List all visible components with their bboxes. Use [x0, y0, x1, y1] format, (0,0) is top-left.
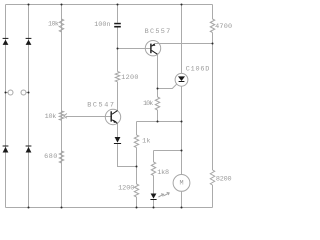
resistor R8 1k8 — [151, 162, 155, 176]
resistor R3 680 — [59, 151, 63, 163]
svg-text:8200: 8200 — [216, 176, 232, 184]
wire LED to rail — [153, 200, 155, 208]
resistor R6 1k — [134, 135, 138, 148]
capacitor C1 100n — [114, 23, 121, 28]
LED D6 — [150, 192, 169, 200]
wire R7 lower — [136, 197, 138, 208]
diode D1 — [3, 38, 9, 45]
svg-text:M: M — [179, 180, 183, 188]
diode D4 — [26, 146, 32, 153]
wire R6 to R7 — [136, 148, 138, 185]
wire top supply rail — [6, 4, 213, 6]
wire motor lower — [181, 191, 183, 207]
wire column R1 — [61, 5, 63, 208]
svg-text:BC557: BC557 — [145, 28, 171, 36]
diode D2 — [26, 38, 32, 45]
svg-text:C106D: C106D — [186, 66, 210, 74]
wire bridge column 1 — [5, 5, 7, 208]
wire R8 upper — [153, 151, 155, 163]
wire Q1 collector down — [157, 54, 159, 88]
svg-text:1200: 1200 — [121, 74, 138, 82]
svg-text:10k: 10k — [48, 21, 59, 29]
resistor R7 1200 — [134, 184, 138, 197]
resistor R1 10k — [59, 19, 63, 32]
wire Q1 emitter to node — [155, 43, 213, 45]
transistor Q2 BC547 — [105, 109, 120, 124]
diode D5 — [114, 137, 121, 144]
resistor R9 4700 — [210, 19, 214, 33]
svg-text:100n: 100n — [94, 21, 110, 29]
resistor R5 10k — [155, 97, 159, 110]
potentiometer R2 10k body — [59, 111, 63, 120]
wire node K2 — [154, 150, 182, 152]
svg-text:680: 680 — [44, 153, 57, 161]
wire R5 upper — [157, 89, 159, 98]
svg-text:10k: 10k — [45, 113, 57, 121]
wire U1 gate — [158, 84, 177, 89]
wire right rail middle — [212, 33, 214, 171]
wire right rail upper — [212, 5, 214, 20]
terminal AC input right — [21, 90, 29, 95]
svg-text:1k: 1k — [142, 137, 150, 145]
svg-text:1200: 1200 — [118, 184, 134, 192]
wire R4 to Q2 collector — [117, 82, 119, 111]
terminal AC input left — [6, 90, 14, 95]
thyristor U1 C106D — [175, 73, 188, 86]
wire U1 cathode — [181, 86, 183, 174]
wire bridge column 2 — [28, 5, 30, 208]
wire R6 upper — [136, 122, 138, 136]
wire Q2 emitter down — [117, 123, 119, 137]
potentiometer R2 wiper arrow — [64, 114, 111, 119]
resistor R4 1200 — [115, 72, 119, 82]
wire column C1 upper — [117, 5, 119, 23]
transistor Q1 BC557 — [145, 41, 160, 56]
wire Q1 base — [118, 48, 151, 50]
diode D3 — [3, 146, 9, 153]
wire node K1 — [137, 121, 182, 123]
wire D5 to node — [118, 144, 137, 167]
svg-text:4700: 4700 — [215, 23, 232, 31]
resistor R10 8200 — [210, 170, 214, 185]
svg-text:10k: 10k — [143, 100, 153, 108]
wire R5 lower — [157, 110, 159, 122]
wire bottom return rail — [6, 207, 213, 209]
svg-text:1k8: 1k8 — [157, 169, 169, 177]
svg-text:BC547: BC547 — [87, 101, 114, 109]
motor M1 — [173, 175, 190, 192]
wire C1 to base node — [117, 28, 119, 72]
wire U1 anode — [181, 5, 183, 74]
wire R8 to LED — [153, 176, 155, 194]
wire right rail lower — [212, 185, 214, 208]
